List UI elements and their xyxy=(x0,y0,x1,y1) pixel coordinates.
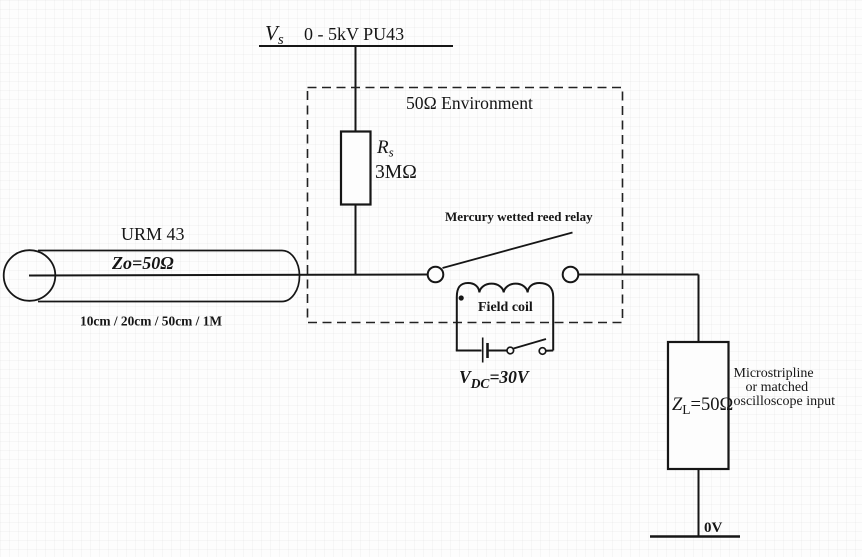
label 0V xyxy=(704,520,723,536)
svg-text:ZL=50Ω: ZL=50Ω xyxy=(672,395,733,417)
svg-text:Vs: Vs xyxy=(265,21,284,48)
coax cable body top line xyxy=(38,250,282,252)
svg-text:Rs: Rs xyxy=(376,137,394,160)
coil switch contact left xyxy=(507,347,514,354)
svg-text:10cm / 20cm / 50cm / 1M: 10cm / 20cm / 50cm / 1M xyxy=(80,314,222,329)
label Mercury wetted reed relay xyxy=(445,209,593,224)
resistor Rs xyxy=(341,132,371,205)
value label Zo=50 ohm xyxy=(111,253,174,273)
value label 3M ohm xyxy=(375,162,417,183)
ground 0V rail xyxy=(650,535,740,537)
wire Rs bottom to main node xyxy=(355,205,357,276)
wire Vs supply rail xyxy=(259,45,453,47)
svg-text:Microstripline: Microstripline xyxy=(734,366,814,381)
wire down to ZL top xyxy=(698,275,700,343)
svg-text:or matched: or matched xyxy=(746,380,809,395)
coil switch contact right xyxy=(539,348,546,355)
label Rs xyxy=(376,137,394,160)
label URM 43 xyxy=(121,224,185,244)
wire relay right contact to ZL xyxy=(579,274,699,276)
svg-text:URM 43: URM 43 xyxy=(121,224,185,244)
value label cable lengths xyxy=(80,314,222,329)
node Vs label xyxy=(265,21,284,48)
svg-text:Zo=50Ω: Zo=50Ω xyxy=(111,253,174,273)
svg-text:Mercury wetted reed relay: Mercury wetted reed relay xyxy=(445,209,593,224)
label Microstripline or matched oscilloscope input xyxy=(734,366,836,409)
svg-text:50Ω Environment: 50Ω Environment xyxy=(406,93,533,113)
coil switch arm xyxy=(514,339,547,349)
wire coax centre conductor to relay contact xyxy=(29,275,428,276)
svg-text:0 - 5kV PU43: 0 - 5kV PU43 xyxy=(304,24,404,44)
coax cable left end circle xyxy=(4,250,56,301)
value label ZL=50 ohm xyxy=(672,395,733,417)
relay contact circle left xyxy=(428,267,444,283)
value label 0 - 5kV PU43 xyxy=(304,24,404,44)
wire coil bottom left to battery xyxy=(456,350,482,352)
wire switch to coil right leg xyxy=(546,350,553,352)
resistor ZL load xyxy=(668,342,729,469)
svg-text:3MΩ: 3MΩ xyxy=(375,162,417,183)
svg-text:0V: 0V xyxy=(704,520,723,536)
svg-text:oscilloscope input: oscilloscope input xyxy=(734,394,836,409)
relay contact circle right xyxy=(563,267,579,283)
svg-text:VDC=30V: VDC=30V xyxy=(459,367,530,391)
battery VDC short plate xyxy=(486,343,489,358)
coax cable right rounded cap xyxy=(282,251,300,302)
battery VDC long plate xyxy=(482,338,484,363)
value label VDC=30V xyxy=(459,367,530,391)
svg-text:Field coil: Field coil xyxy=(478,300,533,315)
wire battery to switch xyxy=(489,350,508,352)
coax cable body bottom line xyxy=(38,301,282,303)
relay switch arm xyxy=(443,233,573,269)
label Field coil xyxy=(478,300,533,315)
label 50 ohm Environment xyxy=(406,93,533,113)
inductor field coil winding xyxy=(457,283,553,351)
wire ZL bottom to ground xyxy=(698,469,700,537)
50 ohm environment dashed boundary xyxy=(308,88,623,323)
coil polarity dot xyxy=(459,295,464,300)
wire Vs rail to Rs top xyxy=(355,46,357,132)
